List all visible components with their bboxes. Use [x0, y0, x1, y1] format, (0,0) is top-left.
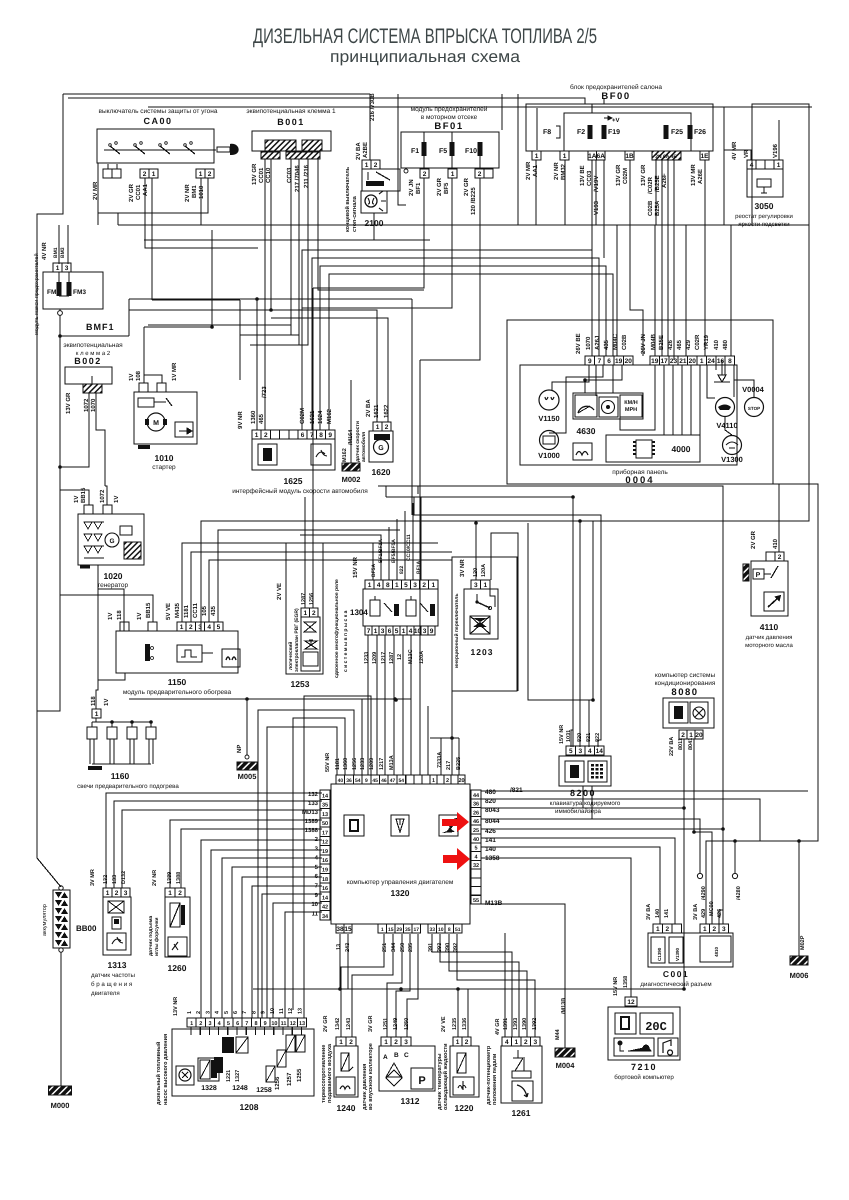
svg-text:2: 2: [208, 171, 212, 178]
wire: [723, 150, 725, 225]
svg-text:465: 465: [258, 413, 265, 424]
svg-text:15V NR: 15V NR: [559, 725, 565, 744]
svg-text:1360: 1360: [343, 758, 349, 770]
wire: [145, 240, 258, 248]
wire: [37, 94, 63, 887]
svg-text:5: 5: [224, 1011, 230, 1014]
wire: [59, 309, 61, 311]
wire: [37, 315, 60, 711]
wire: [595, 365, 597, 396]
svg-text:1: 1: [199, 171, 203, 178]
svg-text:344: 344: [391, 942, 397, 952]
svg-text:подаваемого воздуха: подаваемого воздуха: [327, 1043, 333, 1103]
starter 1010: [134, 392, 197, 444]
alternator diodes: [84, 522, 92, 529]
svg-text:1181: 1181: [183, 604, 190, 618]
wire: [264, 159, 266, 299]
svg-text:821: 821: [586, 733, 592, 742]
wire: [585, 365, 622, 393]
wire: [246, 699, 248, 755]
svg-text:7210: 7210: [631, 1062, 657, 1072]
svg-text:426: 426: [717, 909, 723, 918]
wire: [412, 503, 414, 580]
wire: [721, 360, 723, 375]
svg-text:390: 390: [445, 943, 451, 952]
svg-text:2V NR: 2V NR: [184, 184, 191, 202]
svg-text:435: 435: [603, 339, 610, 350]
svg-text:1320: 1320: [391, 888, 410, 898]
svg-text:1328: 1328: [201, 1085, 217, 1092]
svg-text:10: 10: [438, 927, 444, 933]
wire: [481, 847, 660, 924]
svg-text:3: 3: [198, 624, 202, 631]
ground M002: [342, 463, 360, 471]
wire: [384, 635, 386, 775]
svg-text:822: 822: [399, 565, 405, 574]
wire: [430, 737, 452, 739]
svg-text:с и с т е м ы в п р ы с к а: с и с т е м ы в п р ы с к а: [343, 610, 349, 672]
wire: [378, 486, 723, 924]
svg-text:1388: 1388: [305, 827, 319, 834]
svg-text:реостат регулировки: реостат регулировки: [735, 214, 793, 220]
svg-text:9: 9: [430, 628, 434, 635]
svg-text:1: 1: [395, 582, 399, 589]
wire: [98, 565, 124, 631]
CA00 connector 1-2: [196, 169, 205, 178]
svg-text:1V: 1V: [107, 613, 114, 620]
wire: [152, 299, 240, 301]
svg-text:5V VE: 5V VE: [165, 603, 172, 620]
svg-text:6: 6: [236, 1021, 239, 1027]
red arrow 2: [443, 848, 470, 870]
svg-text:19: 19: [322, 849, 328, 855]
ECU left connector: [320, 790, 330, 799]
svg-text:21: 21: [679, 358, 687, 365]
svg-text:465: 465: [676, 339, 683, 350]
svg-text:7: 7: [367, 628, 371, 635]
svg-text:1: 1: [456, 1039, 460, 1046]
svg-text:BF5A: BF5A: [371, 564, 377, 577]
svg-text:F26: F26: [694, 129, 706, 136]
svg-text:/4290: /4290: [701, 886, 707, 900]
svg-text:40: 40: [473, 837, 479, 843]
svg-text:1: 1: [168, 890, 172, 897]
svg-text:1390: 1390: [522, 1018, 528, 1030]
svg-text:44: 44: [473, 793, 480, 799]
svg-text:кондиционирования: кондиционирования: [655, 680, 716, 687]
svg-text:2: 2: [422, 582, 426, 589]
glow plug: [91, 722, 93, 727]
svg-text:1: 1: [563, 153, 567, 160]
svg-text:4: 4: [377, 582, 381, 589]
svg-text:29: 29: [396, 927, 402, 933]
svg-text:1358: 1358: [623, 976, 629, 988]
svg-text:40: 40: [338, 778, 344, 784]
svg-text:4000: 4000: [672, 444, 691, 454]
svg-text:2: 2: [143, 171, 147, 178]
wire: [407, 934, 418, 1037]
wire: [734, 841, 736, 873]
svg-text:CC03: CC03: [286, 167, 293, 183]
wire: [481, 838, 675, 924]
svg-text:20: 20: [625, 358, 633, 365]
svg-text:1625: 1625: [284, 476, 303, 486]
svg-text:1251: 1251: [383, 1018, 389, 1030]
svg-text:10: 10: [270, 1008, 276, 1014]
svg-text:1V MR: 1V MR: [171, 362, 178, 381]
svg-text:F19: F19: [608, 129, 620, 136]
BF01 connectors: [420, 169, 429, 178]
wire: [715, 365, 717, 370]
wire: [591, 250, 593, 356]
wire: [672, 365, 674, 435]
fuse F1: [422, 142, 427, 156]
svg-text:/C02R: /C02R: [647, 176, 654, 194]
wire: [170, 820, 322, 888]
svg-text:20: 20: [689, 358, 697, 365]
svg-text:13V GR: 13V GR: [640, 164, 647, 186]
wire: [129, 159, 271, 310]
wire: [264, 1027, 266, 1035]
svg-text:429: 429: [701, 909, 707, 918]
wire: [245, 1027, 247, 1035]
svg-text:1248: 1248: [232, 1085, 248, 1092]
wire: [91, 376, 93, 384]
svg-text:M02P: M02P: [800, 935, 806, 950]
svg-text:модуль предохранителей: модуль предохранителей: [411, 106, 488, 113]
svg-text:моторного масла: моторного масла: [745, 643, 793, 649]
svg-text:положения педали: положения педали: [492, 1054, 498, 1105]
svg-text:в моторном отсеке: в моторном отсеке: [421, 114, 478, 121]
wire: [128, 299, 130, 336]
svg-text:1249: 1249: [393, 1018, 399, 1030]
svg-text:1: 1: [514, 1039, 518, 1046]
svg-text:1217: 1217: [381, 652, 387, 664]
svg-text:4: 4: [505, 1039, 509, 1046]
svg-text:2V MR: 2V MR: [525, 161, 532, 180]
wire: [402, 635, 404, 775]
svg-text:1150: 1150: [168, 677, 187, 687]
svg-text:2: 2: [394, 1039, 398, 1046]
wire: [440, 738, 442, 775]
svg-text:2: 2: [712, 926, 716, 933]
wire: [58, 225, 60, 264]
glow plug: [149, 720, 153, 724]
svg-text:33: 33: [429, 927, 435, 933]
svg-text:BB15: BB15: [145, 602, 152, 618]
svg-text:интерфейсный модуль скорости а: интерфейсный модуль скорости автомобиля: [232, 488, 368, 495]
svg-text:NP: NP: [236, 745, 243, 753]
svg-text:26V BE: 26V BE: [575, 333, 582, 354]
svg-text:бортовой компьютер: бортовой компьютер: [614, 1074, 674, 1081]
wire: [304, 696, 371, 1018]
wire: [96, 393, 105, 486]
svg-text:3: 3: [474, 582, 478, 589]
svg-text:1209: 1209: [369, 758, 375, 770]
svg-text:F8: F8: [543, 129, 551, 136]
svg-text:концевой выключатель: концевой выключатель: [344, 166, 351, 232]
wire: [59, 295, 69, 297]
svg-text:1256: 1256: [274, 1076, 281, 1090]
svg-text:эквипотенциальная клемма 1: эквипотенциальная клемма 1: [246, 108, 336, 115]
svg-text:3V NR: 3V NR: [459, 559, 466, 577]
wire: [481, 904, 565, 1048]
svg-text:1622: 1622: [383, 404, 390, 418]
wire: [144, 239, 430, 241]
wire: [117, 213, 119, 225]
svg-text:13V BE: 13V BE: [579, 165, 586, 186]
svg-text:36: 36: [473, 802, 479, 808]
wire: [690, 365, 692, 435]
svg-text:132: 132: [308, 791, 319, 798]
svg-text:1: 1: [255, 432, 259, 439]
svg-text:V1000: V1000: [538, 451, 560, 460]
wire: [420, 497, 422, 580]
wire: [211, 850, 322, 1018]
wire: [410, 635, 412, 775]
svg-text:1220: 1220: [455, 1103, 474, 1113]
wire: [591, 786, 593, 819]
svg-text:2V NR: 2V NR: [553, 162, 560, 180]
1150 relay: [145, 644, 150, 661]
wire: [312, 288, 314, 608]
manifold pressure sensor 1312: [381, 1037, 391, 1046]
8080 connector: [679, 730, 687, 739]
svg-text:насос высокого давления: насос высокого давления: [163, 1034, 169, 1105]
wire: [373, 213, 375, 240]
svg-text:2: 2: [778, 554, 782, 561]
svg-text:141: 141: [664, 909, 670, 918]
engine speed sensor 1313: [103, 888, 112, 897]
svg-text:120 /B225: 120 /B225: [470, 187, 477, 215]
wire: [528, 523, 592, 700]
svg-text:2: 2: [349, 1039, 353, 1046]
svg-text:B25A: B25A: [654, 200, 661, 216]
svg-text:14: 14: [596, 748, 604, 755]
svg-text:1393: 1393: [513, 1018, 519, 1030]
svg-text:217 /7046: 217 /7046: [294, 165, 301, 192]
wire: [603, 98, 605, 104]
wire: [201, 840, 322, 1018]
wire: [291, 1027, 293, 1035]
svg-text:датчик частоты: датчик частоты: [91, 972, 136, 979]
svg-text:0004: 0004: [625, 475, 654, 486]
svg-text:2: 2: [196, 1011, 202, 1014]
svg-text:P: P: [418, 1075, 425, 1087]
svg-text:13: 13: [297, 1008, 303, 1014]
svg-text:1233: 1233: [364, 652, 370, 664]
svg-text:108: 108: [135, 370, 142, 381]
svg-text:4810: 4810: [714, 946, 719, 957]
svg-text:охлаждающей жидкости: охлаждающей жидкости: [442, 1044, 449, 1110]
wire: [218, 530, 400, 622]
svg-text:BM3: BM3: [60, 247, 66, 258]
svg-text:M44: M44: [555, 1028, 561, 1040]
svg-text:1181: 1181: [335, 758, 341, 770]
svg-text:12: 12: [322, 840, 328, 846]
wire: [730, 225, 732, 356]
actuator 1221 1327: [222, 1037, 234, 1053]
diagnostic connector C001: [653, 924, 663, 933]
wire: [258, 310, 377, 422]
wire: [440, 934, 519, 1037]
svg-text:клавиатура кодируемого: клавиатура кодируемого: [550, 800, 621, 807]
wire: [612, 365, 614, 393]
svg-text:1A: 1A: [588, 153, 597, 160]
1150 timer: [177, 645, 202, 662]
wire: [571, 730, 573, 747]
wire: [254, 1027, 256, 1035]
svg-text:16: 16: [322, 886, 328, 892]
svg-text:35: 35: [322, 803, 328, 809]
wire: [312, 258, 599, 430]
wire: [148, 324, 291, 326]
svg-text:15: 15: [344, 926, 352, 933]
svg-text:1250: 1250: [404, 1018, 410, 1030]
wire: [341, 934, 384, 1037]
alternator 1020: [78, 514, 144, 565]
wire: [663, 365, 665, 435]
svg-text:2: 2: [264, 432, 268, 439]
svg-text:1217: 1217: [379, 758, 385, 770]
svg-text:251: 251: [382, 943, 388, 952]
svg-text:1160: 1160: [111, 771, 130, 781]
svg-text:D132: D132: [121, 871, 127, 884]
wire: [694, 739, 712, 924]
svg-text:1: 1: [374, 628, 378, 635]
fuse F25: [664, 125, 669, 139]
svg-text:822: 822: [595, 733, 601, 742]
1208 connector: [187, 1018, 196, 1027]
svg-text:1: 1: [700, 358, 704, 365]
svg-text:CC01: CC01: [258, 167, 265, 183]
glow plug: [110, 720, 114, 724]
svg-text:F5: F5: [439, 148, 447, 155]
wire: [479, 156, 481, 169]
wire: [667, 282, 669, 356]
svg-text:МРН: МРН: [625, 407, 637, 413]
svg-text:5: 5: [404, 582, 408, 589]
starter motor: [147, 413, 165, 431]
svg-text:2V GR: 2V GR: [750, 530, 757, 549]
svg-text:9: 9: [261, 1011, 267, 1014]
svg-text:BF00: BF00: [601, 91, 630, 102]
svg-text:аккумулятор: аккумулятор: [42, 904, 48, 936]
svg-text:1: 1: [432, 778, 435, 784]
svg-text:CA00: CA00: [143, 116, 172, 126]
svg-text:3: 3: [413, 582, 417, 589]
svg-text:3: 3: [533, 1039, 537, 1046]
svg-text:модуль предварительного обогре: модуль предварительного обогрева: [123, 689, 232, 696]
svg-text:1072: 1072: [99, 489, 106, 503]
svg-text:двигателя: двигателя: [91, 990, 120, 997]
svg-text:410: 410: [713, 339, 720, 350]
wire: [313, 178, 424, 288]
svg-text:8011: 8011: [678, 738, 684, 750]
svg-text:M435: M435: [174, 602, 181, 618]
wire: [654, 225, 656, 356]
svg-text:C: C: [404, 1052, 409, 1059]
wire: [250, 159, 308, 345]
wire: [298, 159, 300, 345]
wire: [105, 486, 107, 505]
svg-text:5: 5: [217, 624, 221, 631]
svg-text:BM1: BM1: [191, 185, 198, 198]
svg-text:C02M: C02M: [622, 168, 629, 184]
illumination rheostat 3050: [752, 104, 809, 225]
ECU icon 1: [344, 815, 364, 836]
svg-text:15V NR: 15V NR: [352, 556, 359, 578]
svg-text:эквипотенциальная: эквипотенциальная: [63, 342, 123, 349]
wire: [256, 299, 258, 430]
warning lamp V1150: [539, 390, 559, 410]
wire: [778, 120, 780, 160]
svg-text:электроклапан РВГ (EGR): электроклапан РВГ (EGR): [294, 608, 300, 672]
svg-text:34: 34: [322, 914, 329, 920]
svg-text:38: 38: [336, 926, 344, 933]
wire: [449, 934, 527, 1037]
svg-text:2V JN: 2V JN: [408, 179, 415, 196]
ECU right connector: [471, 790, 481, 799]
fuse F10: [478, 142, 483, 156]
svg-text:13V GR: 13V GR: [615, 164, 622, 186]
wire: [661, 160, 663, 274]
svg-text:1255: 1255: [296, 1068, 303, 1082]
svg-text:1: 1: [95, 711, 99, 718]
wire: [300, 1027, 302, 1035]
svg-text:140: 140: [655, 909, 661, 918]
svg-text:4: 4: [750, 162, 754, 169]
starter icon: [175, 422, 193, 437]
wire: [218, 1027, 220, 1035]
svg-text:2V GR: 2V GR: [436, 177, 443, 196]
svg-text:1391: 1391: [503, 1018, 509, 1030]
wire: [630, 266, 643, 356]
svg-text:1392: 1392: [532, 1018, 538, 1030]
wire: [707, 365, 715, 398]
wire: [704, 160, 706, 225]
svg-text:6: 6: [388, 628, 392, 635]
red arrow 1: [442, 812, 469, 832]
wire: [481, 819, 700, 873]
svg-text:BM1: BM1: [53, 247, 59, 258]
svg-text:13V GR: 13V GR: [65, 392, 72, 414]
wire: [209, 560, 452, 622]
svg-text:6: 6: [233, 1011, 239, 1014]
svg-text:15: 15: [388, 927, 394, 933]
svg-text:4110: 4110: [760, 622, 779, 632]
svg-text:B: B: [394, 1052, 399, 1059]
svg-text:3: 3: [578, 748, 582, 755]
wire: [300, 535, 381, 580]
svg-text:1V: 1V: [128, 374, 135, 381]
1203 icon: [470, 616, 490, 634]
svg-text:1388: 1388: [176, 872, 182, 884]
svg-text:V4110: V4110: [716, 421, 737, 430]
svg-text:118: 118: [116, 610, 123, 620]
svg-text:133: 133: [112, 875, 118, 884]
wire: [60, 335, 129, 337]
svg-text:2: 2: [465, 1039, 469, 1046]
svg-text:1203: 1203: [471, 647, 494, 657]
wire: [419, 360, 421, 775]
wire: [118, 224, 809, 226]
wire: [236, 1027, 238, 1035]
immobiliser keypad 8200: [566, 746, 576, 755]
svg-text:V1390: V1390: [675, 947, 680, 961]
svg-text:B001: B001: [277, 117, 305, 127]
wire: [151, 178, 153, 300]
